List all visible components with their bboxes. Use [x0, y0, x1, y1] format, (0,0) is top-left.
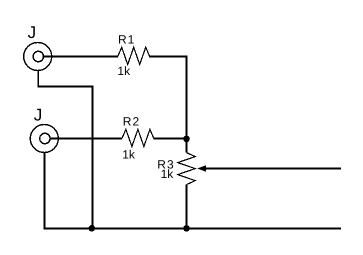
- wire bottom rail: [44, 228, 341, 230]
- wire J1 tip to R1: [44, 56, 119, 58]
- wire R2 to node A: [153, 138, 186, 140]
- connector J1: [24, 43, 52, 71]
- wire node A to R3 top: [186, 139, 188, 153]
- svg-text:R1: R1: [118, 33, 135, 47]
- wire J2 tip to R2: [50, 138, 122, 140]
- wire R3 bottom lead: [186, 185, 188, 230]
- resistor R1: [118, 47, 150, 64]
- svg-text:1k: 1k: [117, 64, 131, 78]
- wire R1 to node A: [149, 56, 187, 58]
- wire J1 sleeve down and across: [37, 70, 39, 87]
- wiper arrow of R3: [197, 165, 206, 172]
- node A junction dot: [183, 136, 190, 143]
- svg-text:1k: 1k: [122, 147, 136, 161]
- svg-text:1k: 1k: [161, 167, 175, 181]
- potentiometer R3 body: [178, 153, 196, 185]
- svg-text:J: J: [34, 105, 43, 124]
- node B junction dot (R3 to ground rail): [183, 225, 190, 232]
- wire J2 sleeve down: [44, 152, 46, 229]
- resistor R2: [122, 129, 154, 146]
- svg-text:R2: R2: [123, 115, 140, 129]
- connector J2: [30, 125, 58, 153]
- svg-text:J: J: [28, 23, 36, 42]
- node C junction dot (J1 sleeve to rail): [89, 225, 96, 232]
